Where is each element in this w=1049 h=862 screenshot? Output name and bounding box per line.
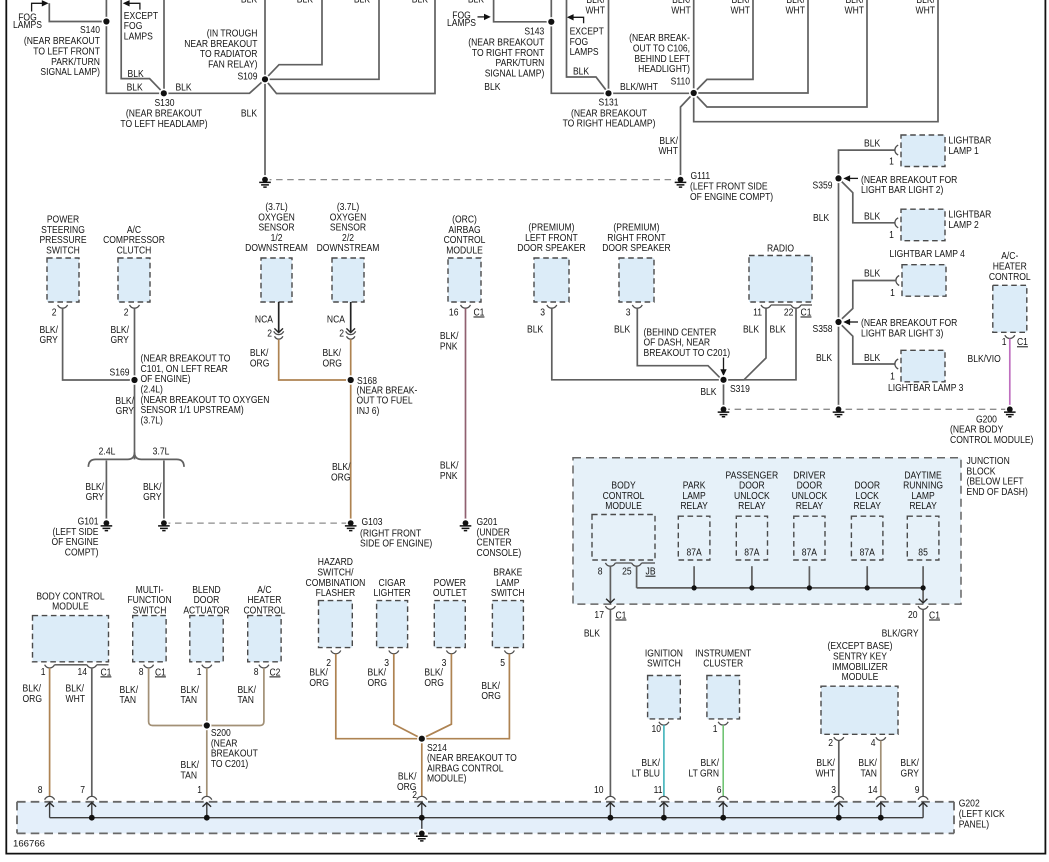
svg-text:HEADLIGHT): HEADLIGHT) (638, 62, 690, 74)
wire BLK/ORG BCM-1 to G202 bus (49, 668, 51, 796)
svg-text:87A: 87A (686, 546, 702, 558)
bus entry connector and arrow (718, 796, 728, 799)
bus entry connector and arrow (876, 796, 886, 799)
splice dot S168 (346, 375, 355, 384)
component: LIGHTBAR LAMP 3 (901, 350, 945, 382)
junction block (below left end of dash) (573, 458, 961, 604)
wire: fog lamps feed to S143 (494, 0, 552, 22)
svg-text:25: 25 (622, 565, 632, 577)
wire BLK/GRY 3.7L to ground (163, 461, 165, 521)
svg-text:DOOR SPEAKER: DOOR SPEAKER (517, 241, 586, 253)
svg-text:RELAY: RELAY (680, 499, 708, 511)
wire BLK from JB to G202 bus (609, 609, 611, 796)
svg-text:BLK: BLK (354, 0, 371, 5)
ground symbol (S109 BLK, engine compt) (260, 175, 269, 184)
svg-text:22: 22 (784, 306, 794, 318)
svg-text:BLK/GRY: BLK/GRY (882, 627, 920, 639)
bus entry connector and arrow (87, 796, 97, 799)
svg-text:OUTLET: OUTLET (433, 586, 467, 598)
connector bar C1 under BCM (55, 664, 87, 666)
svg-text:BLK: BLK (614, 323, 631, 335)
svg-text:1: 1 (889, 155, 894, 167)
wire: BLK from S130 to S109 (164, 79, 265, 93)
svg-text:85: 85 (918, 546, 928, 558)
bus entry connector and arrow (605, 796, 615, 799)
ground symbol G103 (346, 519, 355, 528)
svg-text:G103: G103 (362, 515, 383, 527)
svg-text:BLK: BLK (864, 210, 881, 222)
svg-text:S109: S109 (237, 70, 257, 82)
svg-text:ORG: ORG (322, 357, 341, 369)
svg-text:BLK: BLK (743, 323, 760, 335)
svg-text:TAN: TAN (120, 693, 137, 705)
bus junction dot (878, 815, 884, 821)
wire: BLK from top through S143 down to S131 (551, 0, 608, 93)
callout arrow S358 (849, 321, 858, 323)
wire BLK S359 to lightbar lamp 1 (839, 150, 895, 178)
svg-text:SIDE OF ENGINE): SIDE OF ENGINE) (360, 537, 432, 549)
svg-text:S110: S110 (671, 75, 690, 87)
ground symbol G111 (676, 175, 685, 184)
wire BLK/ORG through S168 to G103 (350, 339, 352, 520)
splice dot S169 (130, 375, 139, 384)
svg-text:FAN RELAY): FAN RELAY) (208, 58, 257, 70)
wire BLK S358 to lightbar lamp 4 (839, 281, 896, 323)
svg-text:JB: JB (646, 565, 656, 577)
svg-text:RELAY: RELAY (796, 499, 824, 511)
junction dot (park lamp relay) (692, 585, 697, 590)
svg-text:1: 1 (890, 286, 895, 298)
wire: BLK from S109 down to ground (264, 79, 266, 177)
svg-text:17: 17 (594, 608, 604, 620)
svg-text:87A: 87A (744, 546, 760, 558)
svg-text:2: 2 (412, 788, 417, 800)
svg-text:ORG: ORG (309, 676, 328, 688)
svg-text:RELAY: RELAY (909, 499, 937, 511)
svg-text:WHT: WHT (585, 4, 605, 16)
callout arrow FOG LAMPS (left) (32, 3, 43, 11)
svg-text:LAMP 2: LAMP 2 (949, 218, 979, 230)
wire: BLK/WHT horizontal into S110 (694, 0, 808, 93)
wire BLK/GRY from JB to G202 bus (922, 609, 924, 796)
splice dot S358 (834, 317, 843, 326)
svg-text:C1: C1 (474, 306, 485, 318)
svg-text:BLK: BLK (241, 0, 258, 5)
svg-text:4: 4 (871, 736, 876, 748)
svg-text:1: 1 (197, 783, 202, 795)
svg-text:C1: C1 (801, 306, 812, 318)
wire: BLK from top into S109 (264, 0, 266, 79)
bus junction dot (608, 815, 614, 821)
wire BLK S358 to lightbar lamp 3 (839, 322, 895, 364)
svg-text:BREAKOUT TO C201): BREAKOUT TO C201) (644, 346, 731, 358)
pin 8 / connector C2 (259, 665, 269, 668)
wire BLK/GRY through S169 (134, 308, 136, 380)
wire BLK radio 11 to S319 (724, 308, 767, 380)
svg-text:1: 1 (197, 665, 202, 677)
bus entry connector and arrow (834, 796, 844, 799)
splice dot S143 (547, 17, 556, 26)
wire from bus conductor to G202 ground (421, 818, 423, 834)
wire: DRL relay 85 exit to C1-20 (922, 566, 924, 588)
wire: BLK from top through S140 down to S130 (106, 0, 163, 93)
svg-text:1: 1 (890, 370, 895, 382)
svg-text:RELAY: RELAY (854, 499, 882, 511)
wire BLK/VIO to G200 (1009, 339, 1011, 407)
svg-text:SIGNAL LAMP): SIGNAL LAMP) (485, 67, 545, 79)
svg-text:PNK: PNK (440, 469, 458, 481)
svg-text:LT GRN: LT GRN (688, 767, 719, 779)
wire: BLK except-fog-lamps into S130 (121, 0, 164, 93)
wire BLK/GRY to S169 (63, 308, 135, 380)
svg-text:CONTROL: CONTROL (989, 270, 1031, 282)
svg-text:1: 1 (713, 722, 718, 734)
wire: BLK/WHT long elbow into S110 (694, 0, 938, 122)
svg-text:MODULE: MODULE (52, 600, 89, 612)
svg-text:C1: C1 (615, 609, 626, 621)
svg-text:BLK: BLK (297, 0, 314, 5)
svg-text:LIGHTBAR LAMP 3: LIGHTBAR LAMP 3 (888, 381, 963, 393)
junction dot (passenger unlock relay) (749, 585, 754, 590)
svg-text:16: 16 (449, 306, 459, 318)
splice dot S109 (260, 75, 269, 84)
svg-text:BLK: BLK (573, 65, 590, 77)
svg-text:PANEL): PANEL) (959, 818, 989, 830)
wire BLK S358 to ground (838, 322, 840, 406)
ground symbol G200 (1005, 405, 1014, 414)
relay ground bus in JB (637, 587, 924, 589)
dashed ground tie line to G111 (265, 179, 681, 181)
svg-text:11: 11 (654, 783, 663, 795)
splice dot S359 (834, 174, 843, 183)
svg-text:WHT: WHT (916, 4, 936, 16)
svg-text:ACTUATOR: ACTUATOR (183, 604, 229, 616)
wire BLK/ORG S214 to G202 bus ground (421, 739, 423, 797)
svg-text:TAN: TAN (237, 693, 254, 705)
svg-text:ORG: ORG (424, 676, 443, 688)
wire: BLK elbow into S109 (265, 0, 322, 79)
svg-text:BLK: BLK (128, 67, 145, 79)
bus junction dot (720, 815, 726, 821)
svg-text:GRY: GRY (86, 490, 105, 502)
svg-text:2: 2 (124, 306, 129, 318)
svg-text:NCA: NCA (255, 313, 274, 325)
wire BLK/ORG to S168 (279, 339, 351, 380)
svg-text:LIGHTBAR LAMP 4: LIGHTBAR LAMP 4 (889, 247, 964, 259)
svg-text:MODULE: MODULE (842, 670, 879, 682)
bus junction dot (661, 815, 667, 821)
svg-text:10: 10 (594, 783, 604, 795)
wire: fog lamps feed to S140 (49, 3, 106, 21)
svg-text:S143: S143 (524, 25, 544, 37)
svg-text:WHT: WHT (66, 692, 86, 704)
svg-text:87A: 87A (802, 546, 818, 558)
bus junction dot (836, 815, 842, 821)
svg-text:CONTROL: CONTROL (244, 604, 286, 616)
svg-text:WHT: WHT (845, 4, 865, 16)
svg-text:ORG: ORG (331, 471, 350, 483)
svg-text:ORG: ORG (250, 357, 269, 369)
splice dot S110 (689, 88, 698, 97)
svg-text:RADIO: RADIO (767, 242, 794, 254)
svg-text:WHT: WHT (731, 4, 751, 16)
callout arrow EXCEPT FOG LAMPS (right) (572, 17, 584, 23)
svg-text:MODULE: MODULE (446, 244, 483, 256)
engine-variant brace 2.4L/3.7L (88, 452, 184, 467)
pin 1 (202, 665, 212, 668)
pin 1 / pin 14 / connector C1 (45, 665, 55, 668)
wire BLK/GRY from S169 to engine split (134, 380, 136, 459)
svg-text:87A: 87A (860, 546, 876, 558)
svg-text:3: 3 (540, 306, 545, 318)
wire black stub with inline connector (278, 302, 280, 333)
svg-text:TAN: TAN (181, 693, 198, 705)
svg-text:SWITCH: SWITCH (491, 586, 525, 598)
svg-text:BLK: BLK (864, 267, 881, 279)
svg-text:1: 1 (41, 665, 46, 677)
wire: BCM pin25 to relay bus (636, 566, 638, 588)
svg-text:LIGHTER: LIGHTER (374, 586, 411, 598)
ground bus G202 (left kick panel) (17, 802, 954, 834)
svg-text:END OF DASH): END OF DASH) (967, 485, 1028, 497)
svg-text:RELAY: RELAY (738, 499, 766, 511)
svg-text:11: 11 (753, 306, 762, 318)
wire black stub with inline connector (350, 302, 352, 333)
wire: BLK/WHT from S131 to S110 (609, 92, 694, 94)
G202 bus conductor (50, 817, 924, 819)
svg-text:BLK: BLK (484, 80, 501, 92)
connector bar JB under BCM (615, 562, 631, 564)
splice dot S131 (604, 89, 613, 98)
splice dot S200 (202, 721, 211, 730)
wire BLK/WHT to G202 bus (838, 741, 840, 797)
svg-text:9: 9 (915, 783, 920, 795)
svg-text:GRY: GRY (901, 767, 920, 779)
splice dot S319 (719, 375, 728, 384)
svg-text:7: 7 (80, 783, 85, 795)
wire: BLK/WHT from top into S131 (608, 0, 610, 93)
svg-text:6: 6 (717, 783, 722, 795)
wire BLK from S319 to ground (723, 380, 725, 407)
svg-text:ORG: ORG (368, 676, 387, 688)
svg-text:C1: C1 (100, 666, 111, 678)
svg-text:2: 2 (52, 306, 57, 318)
svg-text:14: 14 (78, 665, 88, 677)
svg-text:LIGHT BAR LIGHT 2): LIGHT BAR LIGHT 2) (861, 183, 943, 195)
wire BLK to S319 (552, 308, 724, 380)
svg-text:ORG: ORG (481, 689, 500, 701)
svg-text:3.7L: 3.7L (153, 445, 170, 457)
wire BLK/ORG to S214 (394, 654, 422, 739)
wire: BCM pin8 exit to C1-17 (609, 566, 611, 603)
splice dot S140 (102, 17, 111, 26)
svg-text:5: 5 (500, 656, 505, 668)
svg-text:C2: C2 (269, 666, 280, 678)
svg-text:LAMPS: LAMPS (124, 30, 153, 42)
svg-text:C1: C1 (1017, 335, 1028, 347)
pin 2 (331, 651, 341, 654)
svg-text:TAN: TAN (860, 767, 877, 779)
splice dot S130 (159, 89, 168, 98)
svg-text:3: 3 (831, 783, 836, 795)
callout arrow EXCEPT FOG LAMPS (left) (128, 3, 140, 9)
wire BLK/LT GRN to G202 bus (722, 725, 724, 796)
svg-text:2: 2 (828, 736, 833, 748)
svg-text:2: 2 (339, 327, 344, 339)
pin 3 (389, 651, 399, 654)
svg-text:BLK: BLK (700, 385, 717, 397)
wire BLK S359 to S358 (838, 178, 840, 322)
bus entry connector and arrow (45, 796, 55, 799)
svg-text:OF ENGINE COMPT): OF ENGINE COMPT) (690, 190, 773, 202)
svg-text:CLUSTER: CLUSTER (703, 657, 743, 669)
component: LIGHTBAR LAMP 1 (901, 135, 945, 167)
junction dot (door lock relay) (865, 585, 870, 590)
svg-text:BLK: BLK (864, 351, 881, 363)
svg-text:LAMPS: LAMPS (570, 45, 599, 57)
wire BLK/TAN through S200 to G202 bus (206, 668, 208, 796)
svg-text:CLUTCH: CLUTCH (117, 244, 152, 256)
svg-text:BLK: BLK (175, 81, 192, 93)
wire BLK/TAN to S200 (207, 668, 264, 726)
wire BLK/TAN to G202 bus (880, 741, 882, 797)
BCM pins 8 / 25 / JB (605, 563, 615, 566)
callout arrow FOG LAMPS (right) (478, 16, 485, 18)
pin 2 / pin 4 (834, 737, 844, 740)
svg-text:S169: S169 (110, 366, 130, 378)
wire BLK/LT BLU to G202 bus (663, 725, 665, 796)
pin 8 / connector C1 (144, 665, 154, 668)
wire: door lock relay 87A (866, 566, 868, 588)
svg-text:LT BLU: LT BLU (632, 767, 660, 779)
svg-text:COMPT): COMPT) (65, 546, 99, 558)
svg-text:BLK: BLK (241, 107, 258, 119)
svg-text:BLK/WHT: BLK/WHT (620, 80, 658, 92)
svg-text:20: 20 (908, 608, 918, 620)
svg-text:8: 8 (254, 665, 259, 677)
wire: park lamp relay 87A (693, 566, 695, 588)
svg-text:SIGNAL LAMP): SIGNAL LAMP) (40, 65, 100, 77)
wire BLK/ORG to S214 (336, 654, 422, 739)
svg-text:SWITCH: SWITCH (46, 244, 80, 256)
svg-text:BLK: BLK (864, 137, 881, 149)
svg-text:CONTROL MODULE): CONTROL MODULE) (950, 433, 1033, 445)
svg-text:TO RIGHT HEADLAMP): TO RIGHT HEADLAMP) (563, 117, 656, 129)
bus junction dot (204, 815, 210, 821)
svg-text:GRY: GRY (116, 404, 135, 416)
ground symbol (3.7L) (159, 519, 168, 528)
bus entry connector and arrow (918, 796, 928, 799)
svg-text:BLK: BLK (527, 323, 544, 335)
svg-text:8: 8 (139, 665, 144, 677)
wire: BLK/WHT from top into S110 (693, 0, 695, 93)
svg-text:BLK: BLK (468, 0, 485, 5)
pin 10 (659, 722, 669, 725)
bus junction dot (89, 815, 95, 821)
svg-text:ORG: ORG (23, 692, 42, 704)
wire BLK to S319 (637, 308, 722, 380)
svg-text:10: 10 (651, 722, 661, 734)
svg-text:SWITCH: SWITCH (133, 604, 167, 616)
wire BLK/ORG to S214 (422, 654, 452, 739)
wire BLK/GRY 2.4L to G101 (105, 461, 107, 521)
svg-text:1: 1 (889, 228, 894, 240)
svg-text:PNK: PNK (440, 340, 458, 352)
ground symbol (S358) (834, 405, 843, 414)
wire: driver door unlock relay 87A (808, 566, 810, 588)
svg-text:CONSOLE): CONSOLE) (477, 546, 522, 558)
splice dot S214 (417, 734, 426, 743)
wire BLK S359 to lightbar lamp 2 (839, 178, 895, 222)
svg-text:LIGHT BAR LIGHT 3): LIGHT BAR LIGHT 3) (861, 327, 943, 339)
junction dot (driver unlock relay) (807, 585, 812, 590)
svg-text:TO LEFT HEADLAMP): TO LEFT HEADLAMP) (120, 117, 207, 129)
wire: BLK from top into S130 (163, 0, 165, 93)
svg-text:BLK: BLK (813, 211, 830, 223)
wire: BLK horizontal into S109 (265, 0, 379, 79)
svg-text:WHT: WHT (785, 4, 805, 16)
svg-text:INJ 6): INJ 6) (356, 404, 379, 416)
wire: BLK lower elbow into S109 (265, 0, 435, 94)
svg-text:TO C201): TO C201) (211, 757, 248, 769)
ground symbol G101 (102, 519, 111, 528)
svg-text:S359: S359 (813, 179, 833, 191)
junction dot (DRL relay) (921, 585, 926, 590)
wire BLK/PNK to G201 (465, 308, 467, 520)
ground symbol G202 (417, 829, 426, 838)
svg-text:C1: C1 (155, 666, 166, 678)
svg-text:DOOR SPEAKER: DOOR SPEAKER (602, 241, 671, 253)
svg-text:S358: S358 (813, 322, 833, 334)
svg-text:166766: 166766 (13, 839, 45, 850)
svg-text:DOWNSTREAM: DOWNSTREAM (317, 241, 380, 253)
svg-text:GRY: GRY (39, 333, 58, 345)
svg-text:SWITCH: SWITCH (647, 657, 681, 669)
connector bar C1 under radio (771, 304, 791, 306)
callout arrow S359 (849, 177, 858, 179)
ground symbol G201 (461, 519, 470, 528)
svg-text:LAMP 1: LAMP 1 (949, 144, 979, 156)
svg-text:8: 8 (38, 783, 43, 795)
bus entry connector and arrow (659, 796, 669, 799)
bus junction dot (419, 815, 425, 821)
svg-text:NCA: NCA (327, 313, 346, 325)
svg-text:TAN: TAN (181, 769, 198, 781)
wire: BLK/WHT lower elbow into S110 (694, 0, 867, 107)
svg-text:MODULE: MODULE (605, 499, 642, 511)
wire: passenger door unlock relay 87A (751, 566, 753, 588)
pin 5 (504, 651, 514, 654)
bus entry connector and arrow (417, 796, 427, 799)
wire BLK/ORG to S214 (422, 654, 510, 739)
svg-text:GRY: GRY (143, 490, 162, 502)
svg-text:14: 14 (868, 783, 878, 795)
svg-text:LAMPS: LAMPS (447, 16, 476, 28)
wire: BLK/WHT from S110 down to G111 (681, 93, 694, 177)
svg-text:GRY: GRY (110, 333, 129, 345)
pin 1 (718, 722, 728, 725)
svg-text:BLK: BLK (770, 323, 787, 335)
ground symbol (S319) (719, 405, 728, 414)
svg-text:BLK: BLK (584, 627, 601, 639)
svg-text:C1: C1 (929, 609, 940, 621)
svg-text:3: 3 (626, 306, 631, 318)
wire BLK/WHT BCM-14 to G202 bus (91, 668, 93, 796)
svg-text:MODULE): MODULE) (427, 772, 466, 784)
svg-text:BLK: BLK (412, 0, 429, 5)
dashed ground tie to G103 (164, 522, 351, 524)
component: LIGHTBAR LAMP 2 (901, 209, 945, 241)
